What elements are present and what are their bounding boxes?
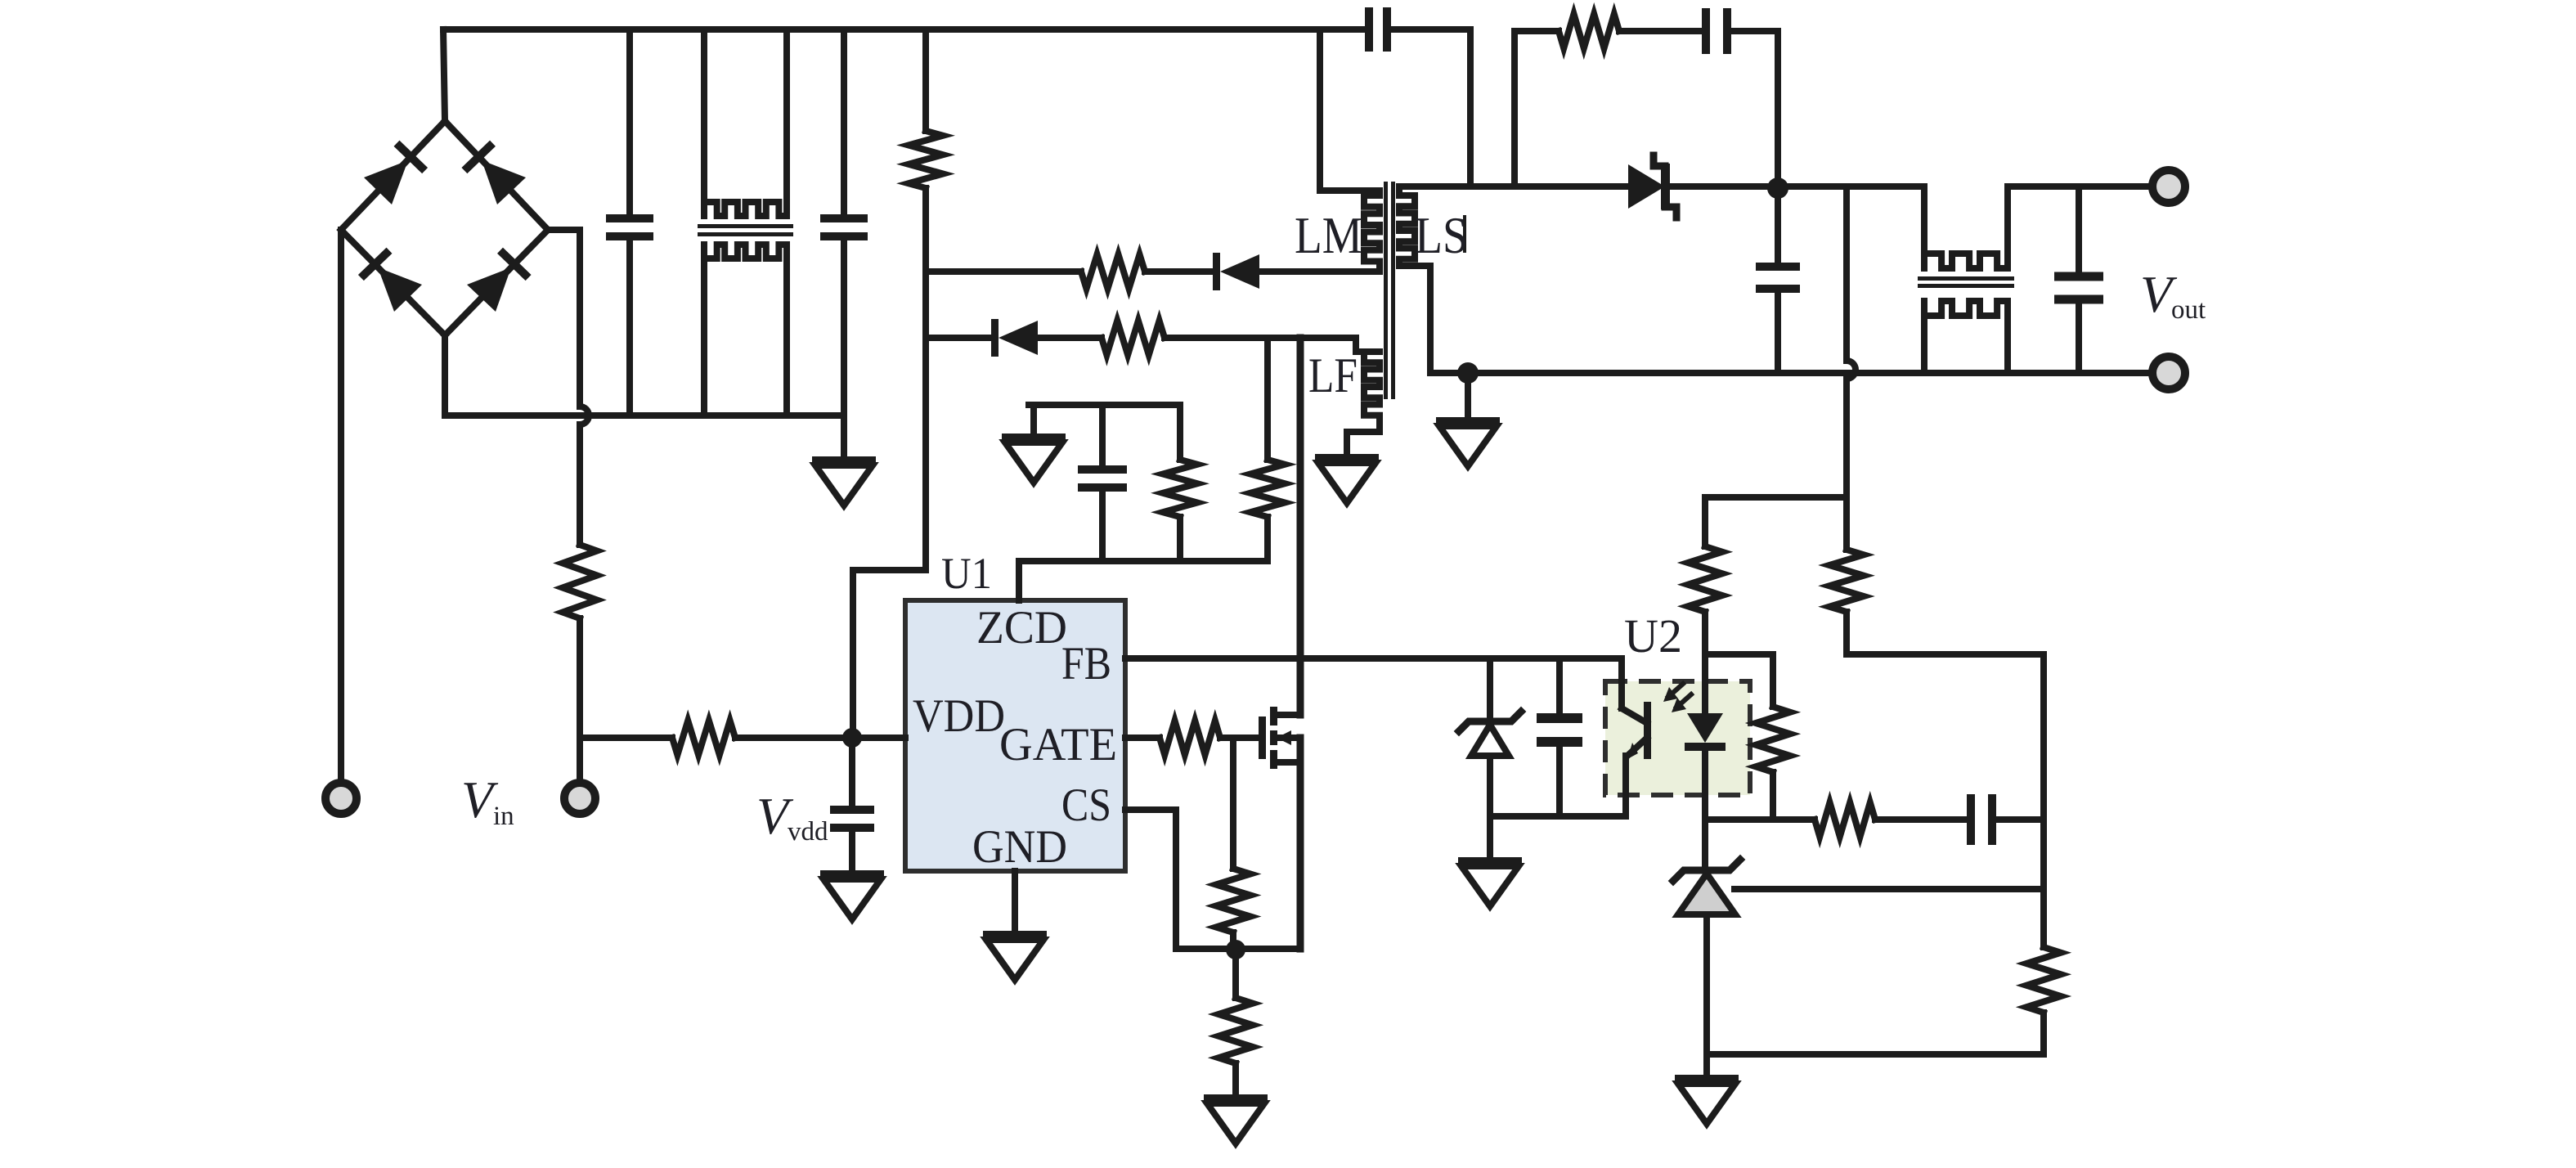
svg-text:GATE: GATE (999, 719, 1117, 770)
svg-text:CS: CS (1061, 779, 1111, 831)
svg-text:GND: GND (972, 821, 1067, 873)
svg-text:ZCD: ZCD (976, 602, 1067, 654)
svg-text:LM: LM (1295, 206, 1362, 264)
svg-text:FB: FB (1061, 638, 1111, 690)
svg-text:out: out (2171, 295, 2206, 325)
svg-text:VDD: VDD (913, 690, 1005, 742)
svg-text:LS: LS (1415, 206, 1468, 264)
svg-text:U1: U1 (941, 549, 992, 598)
svg-text:vdd: vdd (788, 817, 828, 847)
svg-text:U2: U2 (1624, 609, 1682, 663)
svg-text:LF: LF (1308, 348, 1358, 402)
svg-text:in: in (493, 802, 514, 831)
